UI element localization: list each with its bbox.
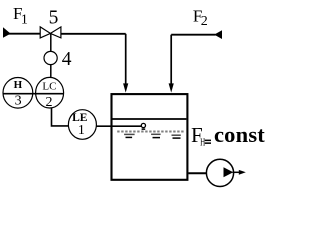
svg-text:LC: LC xyxy=(42,81,56,93)
svg-text:1: 1 xyxy=(21,13,28,28)
svg-text:2: 2 xyxy=(201,14,208,29)
svg-text:2: 2 xyxy=(46,95,53,110)
svg-text:1: 1 xyxy=(78,123,85,138)
svg-text:4: 4 xyxy=(62,49,72,70)
svg-text:const: const xyxy=(214,122,265,147)
svg-text:5: 5 xyxy=(49,7,59,28)
svg-text:H: H xyxy=(14,79,23,91)
svg-text:H: H xyxy=(200,136,206,148)
svg-text:3: 3 xyxy=(15,94,22,109)
